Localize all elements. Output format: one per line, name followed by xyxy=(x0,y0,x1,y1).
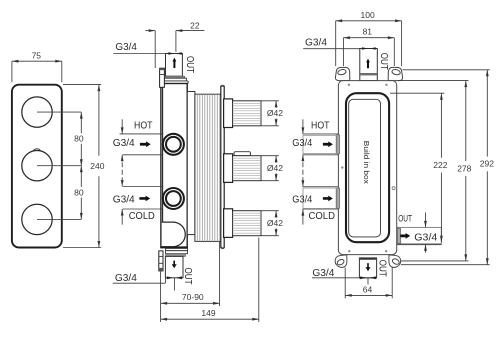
top wall clip xyxy=(160,68,165,87)
box bottom OUT pipe xyxy=(359,258,376,278)
svg-text:OUT: OUT xyxy=(376,260,388,277)
svg-text:Ø42: Ø42 xyxy=(267,108,283,118)
box hot knockout stub xyxy=(336,135,339,154)
top plate 1 xyxy=(164,78,187,81)
cold port tangent lines xyxy=(123,186,164,188)
cartridge ribbed block xyxy=(195,94,223,241)
bottom OUT pipe xyxy=(165,256,183,277)
outlet bulge bottom xyxy=(162,222,186,247)
svg-text:80: 80 xyxy=(74,134,84,144)
flange screw dots xyxy=(348,84,350,86)
box ports center line dashed xyxy=(302,119,304,224)
mounting ear left xyxy=(335,67,349,80)
G3/4 hot arrow right view xyxy=(323,141,333,147)
box cold knockout stub xyxy=(336,188,339,208)
box top gasket xyxy=(361,73,377,75)
dimension 149 xyxy=(161,238,259,323)
G3/4 cold arrow right view xyxy=(323,196,333,202)
cartridge backplate xyxy=(221,86,224,247)
svg-text:HOT: HOT xyxy=(134,120,153,132)
box opening thick rect xyxy=(346,93,389,242)
dimension 80 lower xyxy=(80,166,83,173)
bottom plate 1 xyxy=(166,248,188,250)
outlet stub 2 retaining clip xyxy=(234,152,251,156)
box port diameter arrows xyxy=(302,127,305,133)
svg-text:278: 278 xyxy=(457,163,471,173)
box hot port rect xyxy=(303,135,338,153)
side OUT knockout stub xyxy=(397,228,400,243)
box cold port rect xyxy=(303,188,338,209)
center line knob middle xyxy=(37,165,81,167)
svg-text:240: 240 xyxy=(90,161,104,171)
dimension 222 xyxy=(390,93,445,242)
bottom pipe center line xyxy=(173,278,175,291)
svg-text:COLD: COLD xyxy=(309,210,336,222)
svg-text:149: 149 xyxy=(201,308,215,318)
top plate 2 xyxy=(164,81,189,84)
center line knob bottom xyxy=(37,218,81,220)
gasket strip bottom xyxy=(166,254,186,257)
svg-text:G3/4: G3/4 xyxy=(292,137,312,149)
valve body side view xyxy=(161,84,187,248)
top pipe converging arrows xyxy=(168,52,174,55)
outlet stub 2 threads xyxy=(233,158,261,178)
top OUT flow arrow xyxy=(173,58,177,69)
outlet stub 3 threads xyxy=(233,213,261,233)
cartridge ribs xyxy=(197,94,220,241)
svg-text:OUT: OUT xyxy=(378,53,390,70)
dimension 80 upper xyxy=(80,112,82,219)
outlet stub 3 flange xyxy=(224,209,233,238)
cold port circle xyxy=(163,188,184,209)
box bottom pipe top thick edge xyxy=(360,258,376,260)
knob top xyxy=(22,97,52,127)
faceplate front view outline xyxy=(12,85,62,248)
svg-text:Build in box: Build in box xyxy=(362,141,371,184)
hot port circle xyxy=(163,134,184,155)
svg-text:G3/4: G3/4 xyxy=(292,194,312,206)
knob middle notch xyxy=(33,149,40,151)
box bottom OUT flow arrow xyxy=(366,263,371,271)
svg-text:G3/4: G3/4 xyxy=(115,272,137,284)
outlet stub 3 cylinder xyxy=(233,211,261,236)
svg-text:OUT: OUT xyxy=(182,268,194,285)
body inner left line xyxy=(162,84,164,248)
box top pipe converging arrows xyxy=(362,47,368,50)
G3/4 cold arrow xyxy=(139,196,150,202)
dimension 278 xyxy=(398,81,469,261)
side OUT port rect xyxy=(397,227,442,244)
dimension 64 xyxy=(345,268,392,299)
svg-text:81: 81 xyxy=(363,26,373,36)
dimension Ø42 stub1 xyxy=(262,101,279,126)
box flange xyxy=(338,81,396,255)
svg-text:75: 75 xyxy=(32,51,42,61)
svg-text:G3/4: G3/4 xyxy=(113,194,135,206)
backplate bottom tab xyxy=(221,248,224,249)
svg-text:G3/4: G3/4 xyxy=(414,231,437,243)
box hot tangents xyxy=(303,133,339,135)
bottom OUT flow arrow xyxy=(172,261,177,269)
box bottom center line xyxy=(367,278,369,285)
svg-text:OUT: OUT xyxy=(184,56,196,73)
dimension Ø42 stub3 xyxy=(262,211,279,236)
foot right xyxy=(389,255,401,267)
outlet stub 1 cylinder xyxy=(233,101,261,126)
box top OUT pipe xyxy=(360,49,378,81)
bottom pipe converging arrows xyxy=(167,276,174,279)
svg-text:OUT: OUT xyxy=(398,213,412,223)
dimension Ø42 stub2 xyxy=(262,156,279,181)
dimension 100 xyxy=(336,21,402,66)
dimension 75 xyxy=(12,61,62,82)
svg-text:COLD: COLD xyxy=(129,210,155,222)
svg-text:222: 222 xyxy=(433,160,447,170)
foot left xyxy=(335,255,347,267)
svg-text:100: 100 xyxy=(361,10,375,20)
port center line dashed xyxy=(121,119,123,224)
knob bottom xyxy=(22,204,52,234)
svg-text:Ø42: Ø42 xyxy=(267,218,283,228)
top OUT pipe xyxy=(166,54,183,77)
svg-text:G3/4: G3/4 xyxy=(113,137,135,149)
cartridge plate A xyxy=(187,92,195,235)
box top OUT flow arrow xyxy=(366,59,370,69)
svg-text:80: 80 xyxy=(74,187,84,197)
dimension 70-90 xyxy=(161,241,220,322)
outlet stub 1 flange xyxy=(224,99,233,128)
backplate top tab xyxy=(221,85,224,86)
svg-text:G3/4: G3/4 xyxy=(305,37,327,49)
dimension 81 xyxy=(343,38,394,66)
flange small hole right xyxy=(392,187,395,190)
hot port tangent lines xyxy=(120,133,164,135)
side port arrow xyxy=(400,233,410,239)
box cold tangents xyxy=(303,186,339,188)
svg-text:G3/4: G3/4 xyxy=(115,41,137,53)
dimension 240 xyxy=(63,85,101,248)
svg-text:22: 22 xyxy=(190,20,200,30)
bottom plate 2 xyxy=(166,251,188,254)
box opening inner line xyxy=(349,99,381,237)
side port diameter arrows xyxy=(425,213,427,228)
dimension 22 xyxy=(145,31,204,68)
svg-text:70-90: 70-90 xyxy=(182,292,204,302)
G3/4 hot arrow xyxy=(140,141,151,147)
gasket strip top xyxy=(166,76,185,78)
outlet stub 1 threads xyxy=(233,103,261,123)
knob middle xyxy=(22,151,52,181)
svg-text:G3/4: G3/4 xyxy=(312,267,334,279)
svg-text:292: 292 xyxy=(480,159,494,169)
svg-text:HOT: HOT xyxy=(311,120,330,132)
svg-text:Ø42: Ø42 xyxy=(267,163,283,173)
body bottom edge xyxy=(160,246,188,248)
outlet stub 2 flange xyxy=(224,154,233,183)
bottom wall clip xyxy=(159,251,163,271)
center line knob top xyxy=(37,111,81,113)
port diameter arrows xyxy=(121,127,124,133)
outlet stub 2 cylinder xyxy=(233,156,261,181)
dimension 292 xyxy=(401,70,490,265)
svg-text:64: 64 xyxy=(363,285,373,295)
mounting ear right xyxy=(388,67,402,80)
